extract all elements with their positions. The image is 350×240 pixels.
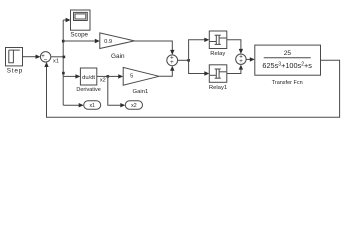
sum junction Sum (inputs + left, - bottom) bbox=[40, 52, 50, 62]
svg-text:Step: Step bbox=[7, 68, 23, 75]
sum junction Sum2 (+ top, + bottom) bbox=[236, 54, 246, 64]
svg-text:Relay1: Relay1 bbox=[209, 85, 227, 91]
wire Sum1 output to branch bbox=[177, 59, 189, 61]
junction dot derivative output bbox=[107, 75, 110, 78]
junction dot at gain branch bbox=[62, 40, 65, 43]
svg-text:x2: x2 bbox=[100, 77, 106, 83]
wire Derivative output bbox=[97, 75, 108, 77]
wire Gain output to Sum1 top bbox=[134, 41, 174, 55]
wire to Scope bbox=[63, 18, 70, 22]
svg-text:Gain1: Gain1 bbox=[133, 89, 149, 95]
block Derivative bbox=[80, 68, 96, 85]
junction dot above derivative branch bbox=[62, 72, 65, 75]
svg-text:5: 5 bbox=[130, 73, 133, 79]
svg-text:+: + bbox=[239, 59, 243, 65]
svg-text:x1: x1 bbox=[53, 59, 59, 65]
svg-text:Relay: Relay bbox=[210, 51, 225, 57]
goto tag x1 bbox=[84, 101, 101, 110]
svg-text:Transfer Fcn: Transfer Fcn bbox=[272, 80, 303, 86]
block Scope bbox=[71, 10, 91, 30]
svg-text:+: + bbox=[170, 60, 174, 66]
wire drop to goto x2 bbox=[108, 76, 126, 107]
wire branch to Relay1 bbox=[189, 60, 210, 75]
wire Sum2 to Transfer Fcn bbox=[246, 57, 255, 61]
goto tag x2 bbox=[125, 101, 142, 110]
wire Step to Sum bbox=[23, 55, 41, 59]
wire Relay1 to Sum2 bottom bbox=[227, 65, 243, 74]
block Relay bbox=[209, 31, 227, 49]
svg-text:du/dt: du/dt bbox=[82, 75, 95, 81]
wire Relay to Sum2 top bbox=[227, 40, 243, 54]
block Relay1 bbox=[209, 65, 227, 83]
wire feedback loop from Transfer Fcn to Sum bbox=[44, 60, 339, 117]
wire to Gain bbox=[63, 39, 100, 43]
svg-text:x2: x2 bbox=[131, 103, 137, 109]
block Gain 0.9 bbox=[100, 33, 135, 49]
wire to goto x1 bbox=[63, 103, 83, 107]
junction dot relay branch bbox=[187, 59, 190, 62]
svg-text:−: − bbox=[44, 57, 48, 64]
svg-text:x1: x1 bbox=[89, 103, 95, 109]
wire junction to Gain1 bbox=[108, 74, 123, 78]
wire branch vertical x1 net bbox=[62, 20, 64, 105]
wire Gain1 output to Sum1 bottom bbox=[159, 66, 174, 77]
svg-text:0.9: 0.9 bbox=[104, 39, 112, 45]
block Transfer Fcn bbox=[255, 45, 321, 75]
block Gain1 bbox=[123, 67, 159, 85]
sum junction Sum1 (+ top, + bottom) bbox=[167, 55, 178, 66]
wire branch to Relay bbox=[189, 38, 210, 61]
block Step bbox=[6, 48, 23, 66]
wire Sum output to branch bbox=[51, 56, 63, 58]
wire to Derivative bbox=[63, 74, 80, 78]
svg-text:25: 25 bbox=[284, 50, 292, 57]
svg-text:625s3+100s2+s: 625s3+100s2+s bbox=[262, 61, 312, 70]
svg-text:Scope: Scope bbox=[70, 31, 88, 38]
svg-text:Derivative: Derivative bbox=[76, 87, 100, 93]
junction dot at sum output bbox=[63, 56, 66, 59]
svg-text:Gain: Gain bbox=[111, 53, 125, 60]
